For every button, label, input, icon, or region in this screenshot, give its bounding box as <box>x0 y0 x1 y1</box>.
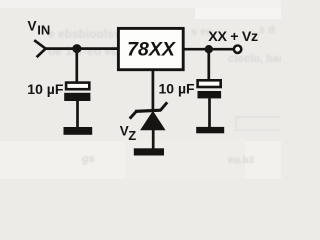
ground (C1) <box>64 127 93 135</box>
label V_Z <box>120 123 137 143</box>
svg-text:XX + Vz: XX + Vz <box>208 29 258 45</box>
ground (C2) <box>196 127 224 133</box>
wire: C2 bottom plate to ground <box>208 98 211 128</box>
zener triangle (anode, pointing up) <box>140 111 166 131</box>
diode D1: zener Vz <box>130 102 168 130</box>
node A: input junction dot <box>72 44 81 53</box>
ground (D1) <box>134 148 164 155</box>
capacitor C2 10uF (polarized: hollow + plate, solid - plate) <box>198 80 222 98</box>
svg-text:cteclo, bau: cteclo, bau <box>228 53 281 65</box>
svg-text:gs: gs <box>81 153 95 165</box>
wire: output node down to C2 <box>207 49 210 80</box>
svg-text:V: V <box>28 19 37 34</box>
svg-text:10 µF: 10 µF <box>159 80 196 96</box>
wire: zener anode to ground <box>152 130 155 151</box>
svg-text:eu.b3: eu.b3 <box>228 155 255 166</box>
V_IN label <box>28 19 51 38</box>
svg-text:78XX: 78XX <box>127 38 176 60</box>
output terminal (open circle) <box>234 46 241 53</box>
wire: input node down to C1 <box>75 49 78 83</box>
wire: regulator common pin down to zener cathode <box>152 70 155 110</box>
svg-text:s d: s d <box>259 24 275 36</box>
node B: output junction dot <box>205 45 213 53</box>
wire: input terminal to regulator input pin <box>46 47 119 50</box>
V_IN input terminal chevron <box>34 40 45 57</box>
svg-text:10 µF: 10 µF <box>27 81 64 97</box>
regulator U1: 78XX box <box>118 28 183 69</box>
svg-text:Z: Z <box>128 128 136 143</box>
svg-text:IN: IN <box>37 23 50 38</box>
zener cathode bar with bent ends <box>135 110 161 111</box>
wire: C1 bottom plate to ground <box>76 101 79 129</box>
capacitor C1 10uF (polarized: hollow + plate, solid - plate) <box>64 83 90 101</box>
wire: output pin of regulator to output terminal <box>183 48 234 51</box>
scanned page background <box>0 0 281 179</box>
